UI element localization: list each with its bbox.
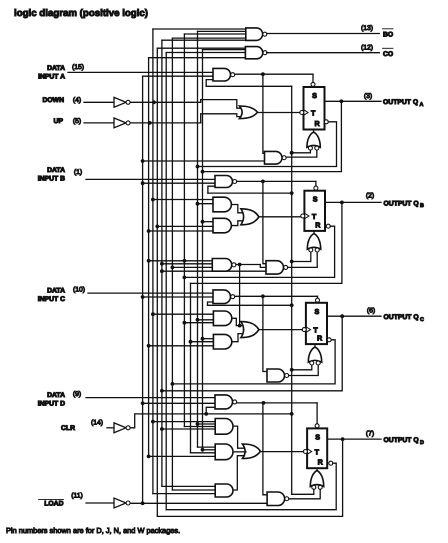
wire B3 to or C <box>238 265 242 328</box>
svg-text:(1): (1) <box>74 169 82 176</box>
svg-text:CO: CO <box>383 51 393 58</box>
wire SD drop <box>316 403 318 424</box>
wire clr loop C <box>208 302 294 307</box>
pin (2) <box>366 192 374 199</box>
wire RB2 out <box>288 252 318 267</box>
svg-text:(7): (7) <box>366 430 374 437</box>
wire clr input <box>107 427 114 429</box>
svg-text:(6): (6) <box>367 307 375 314</box>
label R D <box>318 458 324 467</box>
bubble R out D <box>329 461 333 465</box>
nand gate RD2 <box>267 492 289 506</box>
pin (11) <box>71 493 83 500</box>
svg-text:(12): (12) <box>361 44 373 51</box>
wire data D <box>86 397 215 399</box>
wire QC bus vertical <box>161 40 163 486</box>
pin (6) <box>367 307 375 314</box>
wire QB out <box>325 201 381 205</box>
wire clear rail <box>291 86 293 494</box>
label OUTPUT QD <box>384 437 425 446</box>
wire QCb bus vertical <box>171 38 173 490</box>
wire RC gate out <box>314 344 316 347</box>
wire QD out <box>327 437 381 441</box>
label CLR <box>61 425 75 432</box>
pin (12) <box>361 44 373 51</box>
label R A <box>315 119 321 128</box>
or gate A <box>239 106 257 119</box>
wire LOAD tap y183.2 <box>141 181 215 185</box>
and gate D2 <box>215 444 233 460</box>
wire BO input 4 from QCb bus <box>172 37 245 39</box>
svg-text:INPUT B: INPUT B <box>38 176 65 183</box>
label T D <box>315 447 320 456</box>
wire C2 in3 <box>147 344 214 348</box>
wire B1 in1 <box>151 198 213 202</box>
inverter up <box>114 118 130 128</box>
wire BO output <box>267 33 380 35</box>
wire R B2 in3 <box>160 269 266 273</box>
label DATA INPUT C <box>38 288 65 304</box>
bubble R out A <box>324 120 328 124</box>
wire rail to RC gate <box>290 365 312 371</box>
label S B <box>313 195 318 204</box>
and gate B2 <box>213 218 231 233</box>
wire QA bus vertical <box>202 50 204 450</box>
wire B2 in1 <box>201 220 213 224</box>
svg-text:(4): (4) <box>73 97 81 104</box>
label CO <box>383 48 394 58</box>
svg-text:B: B <box>420 203 424 209</box>
wire D3 in2 <box>172 489 215 491</box>
wire QC out <box>327 314 381 318</box>
svg-text:A: A <box>420 102 424 108</box>
nand gate RA2 <box>265 151 287 164</box>
wire LOAD tap y161.0 <box>141 159 264 163</box>
svg-text:S: S <box>312 91 317 100</box>
wire SC out <box>235 294 318 298</box>
label OUTPUT QA <box>383 99 424 108</box>
wire QB route <box>191 202 342 283</box>
svg-text:(15): (15) <box>72 64 84 71</box>
inverter load <box>114 498 130 508</box>
nand gate BO <box>246 28 267 41</box>
wire clear rail top corner <box>206 85 292 87</box>
wire LOAD tap y297.0 <box>141 295 213 299</box>
svg-text:OUTPUT Q: OUTPUT Q <box>384 314 419 321</box>
wire QD route <box>157 439 342 516</box>
wire C1 to or <box>232 318 243 325</box>
caption <box>6 526 180 535</box>
svg-text:S: S <box>315 307 320 316</box>
arrow T A <box>304 110 308 115</box>
nand gate RB2 <box>266 261 288 274</box>
wire CO input 4 from UP bus <box>149 57 246 59</box>
pin (7) <box>366 430 374 437</box>
svg-text:(2): (2) <box>366 192 374 199</box>
wire C2 in1 <box>201 337 214 341</box>
wire data A <box>68 71 213 73</box>
svg-text:logic diagram (positive logic): logic diagram (positive logic) <box>14 8 148 19</box>
wire RA gate out <box>313 130 315 133</box>
wire D1 in3 <box>184 426 215 428</box>
wire rail to RA gate <box>290 150 311 154</box>
label OUTPUT QC <box>384 314 425 323</box>
wire QDb bus vertical <box>165 53 167 510</box>
and gate C2 <box>213 334 231 349</box>
svg-text:D: D <box>420 440 424 446</box>
wire LOAD bus vertical <box>142 76 144 503</box>
svg-text:DOWN: DOWN <box>42 97 64 104</box>
nand gate RC2 <box>267 369 289 382</box>
wire SD to R gate <box>263 403 267 495</box>
wire SA to R gate <box>263 74 265 153</box>
pin (1) <box>74 169 82 176</box>
wire CO input 2 from QA bus <box>203 49 246 51</box>
label DOWN <box>42 97 64 104</box>
wire SA out <box>235 72 313 76</box>
wire D1 in4 <box>160 427 215 431</box>
svg-text:CLR: CLR <box>61 425 75 432</box>
wire BO input 1 from DOWN bus <box>153 28 246 30</box>
wire RC2 out <box>289 365 319 375</box>
and gate D1 <box>215 419 233 435</box>
wire clr loop B <box>208 186 294 195</box>
label T C <box>313 325 318 334</box>
svg-text:DATA: DATA <box>47 167 65 174</box>
nand gate SD <box>215 395 237 409</box>
svg-text:R: R <box>317 334 323 343</box>
wire RD gate out <box>316 468 318 470</box>
wire D1 to or <box>233 426 244 448</box>
wire QBb bus vertical <box>190 283 192 452</box>
label R B <box>315 220 321 229</box>
wire C2 in2 <box>189 340 214 344</box>
wire data C <box>88 292 213 294</box>
label DATA INPUT B <box>38 167 65 183</box>
wire D3 out <box>233 456 244 490</box>
label R C <box>317 334 323 343</box>
wire C1 in2 <box>196 318 214 322</box>
or gate B <box>241 209 259 225</box>
junction LOAD bottom <box>141 501 145 505</box>
arrow T B <box>305 213 309 218</box>
wire RB gate out <box>313 231 315 234</box>
wire CO input 1 from QD bus <box>157 47 245 49</box>
svg-text:Pin numbers shown are for D, J: Pin numbers shown are for D, J, N, and W… <box>6 526 180 535</box>
svg-text:(3): (3) <box>364 93 372 100</box>
wire CO input 3 from QDb bus <box>166 52 245 54</box>
wire QAb bus vertical <box>197 31 199 447</box>
pin (5) <box>73 118 81 125</box>
wire BO input 2 from QAb bus <box>198 30 246 32</box>
wire T input C <box>259 329 302 331</box>
title <box>14 8 148 19</box>
or gate RA <box>307 132 320 150</box>
svg-text:(9): (9) <box>73 391 81 398</box>
wire QD bus vertical <box>156 48 158 516</box>
svg-text:R: R <box>315 220 321 229</box>
wire QC route <box>160 316 342 392</box>
wire C2 to or <box>232 334 243 342</box>
bubble T edge D <box>303 450 307 454</box>
wire QDbar route <box>166 463 336 510</box>
svg-text:S: S <box>315 432 320 441</box>
wire SC to R gate <box>263 296 267 371</box>
pin (10) <box>73 287 85 294</box>
wire load input <box>86 502 114 504</box>
wire C1 in1 <box>151 312 213 316</box>
wire B1 to or <box>232 205 243 213</box>
pin (15) <box>72 64 84 71</box>
wire B3 out <box>236 263 266 268</box>
wire clr loop A <box>206 80 213 87</box>
wire QB bus vertical <box>183 34 185 427</box>
bubble S input B <box>314 186 318 190</box>
label S C <box>315 307 320 316</box>
inverter down <box>114 97 130 107</box>
svg-text:(14): (14) <box>91 420 103 427</box>
bubble S input A <box>311 82 315 86</box>
svg-text:INPUT D: INPUT D <box>38 401 65 408</box>
pin (4) <box>73 97 81 104</box>
wire clr internal <box>131 412 294 428</box>
nand gate SC <box>213 290 235 304</box>
wire T input A <box>258 112 300 114</box>
pin (13) <box>361 25 373 32</box>
svg-text:(10): (10) <box>73 287 85 294</box>
wire D2 in4 <box>147 455 215 459</box>
wire UP internal <box>131 114 242 125</box>
wire D2 in3 <box>191 452 216 454</box>
flip-flop UA <box>304 87 325 130</box>
wire load internal <box>131 502 267 504</box>
wire D3 in3 <box>153 493 215 495</box>
svg-text:DATA: DATA <box>47 392 65 399</box>
bubble S input D <box>315 424 319 428</box>
svg-text:S: S <box>313 195 318 204</box>
wire RD2 out <box>289 490 320 499</box>
wire LOAD rail to gate A <box>143 75 213 77</box>
wire BO input 3 from QB bus <box>184 33 245 35</box>
junction rail A <box>290 151 294 155</box>
svg-text:OUTPUT Q: OUTPUT Q <box>384 437 419 444</box>
svg-text:DATA: DATA <box>47 288 65 295</box>
svg-text:UP: UP <box>54 118 64 125</box>
wire rail to RD gate <box>292 490 314 495</box>
label LOAD <box>39 500 64 508</box>
wire B2 to or <box>232 221 243 226</box>
bubble T edge B <box>301 214 305 218</box>
label T A <box>311 108 316 117</box>
bubble S input C <box>316 298 320 302</box>
flip-flop UB <box>304 191 325 231</box>
label BO <box>383 29 394 39</box>
svg-text:INPUT C: INPUT C <box>38 296 65 303</box>
svg-text:R: R <box>315 119 321 128</box>
svg-text:INPUT A: INPUT A <box>38 74 65 81</box>
wire B2 in3 <box>147 229 213 233</box>
wire RA2 out <box>286 150 317 157</box>
svg-text:(5): (5) <box>73 118 81 125</box>
or gate C <box>241 322 259 338</box>
label S A <box>312 91 317 100</box>
wire LOAD tap y403.3 <box>141 401 215 405</box>
nand gate SA <box>213 68 235 81</box>
svg-text:(11): (11) <box>71 493 83 500</box>
wire SD out <box>237 401 317 405</box>
wire D2 in2 <box>201 448 216 452</box>
svg-text:(13): (13) <box>361 25 373 32</box>
bubble T edge A <box>300 111 304 115</box>
bubble T edge C <box>302 328 306 332</box>
and gate D3 <box>215 484 233 497</box>
svg-text:T: T <box>311 108 316 117</box>
wire CO output <box>267 52 380 54</box>
wire QA route <box>201 101 342 173</box>
wire up input <box>84 122 114 124</box>
nand gate B3 <box>212 259 236 272</box>
pin (3) <box>364 93 372 100</box>
wire SC drop <box>317 296 319 298</box>
arrow T C <box>306 327 310 332</box>
svg-text:BO: BO <box>383 32 393 39</box>
wire DOWN internal <box>131 100 242 109</box>
wire QA out <box>325 99 382 103</box>
wire BO input 5 from QC bus <box>162 39 246 41</box>
wire T input D <box>260 451 303 453</box>
wire SA drop <box>312 74 314 82</box>
wire clr loop D <box>206 407 215 414</box>
or gate RB <box>307 234 320 252</box>
wire UP bus vertical <box>148 58 150 457</box>
svg-text:DATA: DATA <box>47 65 65 72</box>
svg-text:LOAD: LOAD <box>44 501 63 508</box>
wire data B <box>86 178 215 180</box>
wire D2 in1 <box>198 446 216 448</box>
label UP <box>54 118 64 125</box>
or gate D <box>242 444 260 459</box>
svg-text:OUTPUT Q: OUTPUT Q <box>384 200 419 207</box>
wire C1 in3 <box>183 321 214 325</box>
bubble R out C <box>327 338 331 342</box>
label S D <box>315 432 320 441</box>
wire B3 in3 <box>171 266 213 270</box>
svg-text:OUTPUT Q: OUTPUT Q <box>383 99 418 106</box>
flip-flop UC <box>306 303 327 344</box>
pin (9) <box>73 391 81 398</box>
bubble R out B <box>326 224 330 228</box>
wire rail to RB gate <box>290 252 311 263</box>
label DATA INPUT D <box>38 392 65 408</box>
wire B3 in1 <box>147 259 213 263</box>
arrow T D <box>308 449 312 454</box>
inverter clr <box>114 423 130 433</box>
wire QBbar route <box>183 226 335 279</box>
label OUTPUT QB <box>384 200 425 209</box>
svg-text:T: T <box>315 447 320 456</box>
wire SB drop <box>315 181 317 186</box>
wire down input <box>84 101 114 103</box>
wire QAbar route <box>196 122 337 169</box>
flip-flop UD <box>307 428 327 468</box>
wire SB to R gate <box>263 181 266 263</box>
pin (14) <box>91 420 103 427</box>
wire D1 in2 <box>196 422 216 426</box>
label T B <box>312 212 317 221</box>
wire B1 in2 <box>196 202 213 206</box>
nand gate SB <box>215 176 237 188</box>
wire T input B <box>259 216 301 218</box>
wire D1 in1 <box>151 420 215 424</box>
and gate B1 <box>213 197 231 212</box>
svg-text:R: R <box>318 458 324 467</box>
nand gate CO <box>245 47 267 59</box>
wire D2 to or <box>233 451 246 453</box>
and gate C1 <box>213 311 231 326</box>
or gate RD <box>310 471 323 490</box>
wire DOWN bus vertical <box>152 29 154 494</box>
label DATA INPUT A <box>38 65 65 81</box>
or gate RC <box>308 347 321 365</box>
wire B3 in2 <box>160 262 212 266</box>
wire D3 in1 <box>162 485 215 487</box>
svg-text:C: C <box>420 317 424 323</box>
wire B2 in2 <box>155 225 213 229</box>
wire QCbar route <box>171 340 336 386</box>
wire SB out <box>237 180 316 184</box>
